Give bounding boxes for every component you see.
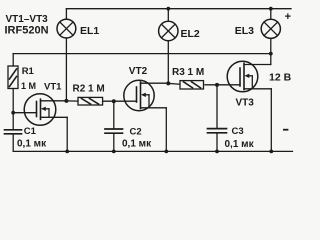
svg-text:0,1 мк: 0,1 мк <box>225 139 255 150</box>
node: C2 to ground <box>112 150 116 154</box>
svg-text:C2: C2 <box>130 127 142 138</box>
node: VT2 drain / EL2 / R3 junction <box>166 81 170 85</box>
wire: feedback from VT3 drain to R1 <box>13 54 271 66</box>
node: VT1 source to ground <box>65 150 69 154</box>
wire: +12V top rail <box>66 8 291 10</box>
resistor R3 <box>168 81 240 89</box>
node: feedback joins EL3/VT3 drain <box>269 52 273 56</box>
node: VT3 source to ground <box>269 150 273 154</box>
resistor R2 <box>66 97 136 105</box>
svg-text:EL3: EL3 <box>235 25 254 37</box>
lamp EL1 <box>57 9 76 101</box>
svg-text:0,1 мк: 0,1 мк <box>122 139 152 150</box>
wire: ground bottom rail <box>13 150 292 152</box>
svg-text:R3 1 М: R3 1 М <box>172 67 204 78</box>
node: EL2 top junction <box>166 7 170 11</box>
svg-text:VT3: VT3 <box>236 97 255 108</box>
label: minus supply terminal <box>283 129 288 131</box>
node: EL3 top junction <box>269 7 273 11</box>
svg-text:VT1–VT3: VT1–VT3 <box>6 14 49 25</box>
svg-text:C3: C3 <box>232 126 244 137</box>
svg-text:VT2: VT2 <box>129 66 148 77</box>
resistor R1 <box>8 66 18 130</box>
svg-text:+: + <box>285 11 291 23</box>
node: VT1 gate / R1 / C1 junction <box>11 111 15 115</box>
node: VT2 source to ground <box>164 150 168 154</box>
lamp EL2 <box>159 9 178 84</box>
svg-text:R2 1 М: R2 1 М <box>73 84 105 95</box>
transistor VT3 (MOSFET) <box>227 61 271 151</box>
capacitor C2 <box>105 101 123 151</box>
lamp EL3 <box>261 9 280 65</box>
svg-text:R1: R1 <box>22 66 35 77</box>
transistor VT2 (MOSFET) <box>124 80 169 151</box>
node: VT1 drain / EL1 / R2 junction <box>64 99 68 103</box>
svg-text:EL1: EL1 <box>80 25 99 37</box>
svg-text:1 М: 1 М <box>21 81 36 91</box>
svg-text:IRF520N: IRF520N <box>5 25 49 37</box>
capacitor C1 <box>5 130 22 152</box>
svg-text:12 В: 12 В <box>269 72 292 84</box>
node: C3 to ground <box>215 150 219 154</box>
node: VT2 gate / R2 / C2 junction <box>112 99 116 103</box>
svg-text:C1: C1 <box>24 126 37 137</box>
node: VT3 gate / R3 / C3 junction <box>215 83 219 87</box>
capacitor C3 <box>208 85 227 151</box>
svg-text:0,1 мк: 0,1 мк <box>17 138 47 149</box>
transistor VT1 (MOSFET) <box>13 94 67 152</box>
svg-text:VT1: VT1 <box>44 81 62 92</box>
svg-text:EL2: EL2 <box>181 28 200 40</box>
